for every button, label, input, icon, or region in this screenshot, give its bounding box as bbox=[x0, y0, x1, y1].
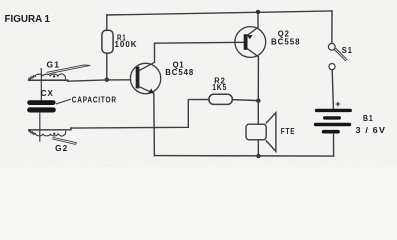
resistor R1 bbox=[102, 15, 113, 80]
label R1 100K bbox=[115, 34, 138, 49]
switch S1 bbox=[328, 43, 347, 69]
wire junction to speaker bbox=[257, 101, 259, 125]
wire R2 right to junction bbox=[232, 100, 258, 101]
svg-text:100K: 100K bbox=[115, 40, 138, 49]
svg-text:BC548: BC548 bbox=[165, 68, 194, 77]
label Q1 BC548 bbox=[165, 61, 194, 78]
capacitor CX bbox=[27, 69, 56, 141]
wire Q1 emitter down to bottom rail bbox=[153, 93, 156, 156]
battery B1 bbox=[314, 109, 352, 134]
svg-text:S1: S1 bbox=[342, 46, 353, 55]
wire top rail corner down to S1 bbox=[331, 11, 333, 43]
speaker FTE bbox=[246, 113, 276, 152]
node top rail junction bbox=[256, 10, 260, 14]
label R2 1K5 bbox=[212, 77, 227, 92]
wire G1 to Q1 base bbox=[68, 80, 131, 81]
svg-text:BC558: BC558 bbox=[271, 38, 301, 47]
svg-text:FIGURA 1: FIGURA 1 bbox=[5, 14, 51, 25]
svg-text:G1: G1 bbox=[47, 61, 61, 70]
clip G1 bbox=[29, 65, 91, 81]
label CAPACITOR with leader bbox=[57, 96, 117, 105]
svg-text:B1: B1 bbox=[363, 114, 374, 123]
wire S1 to battery plus bbox=[332, 70, 333, 109]
svg-text:CAPACITOR: CAPACITOR bbox=[72, 96, 117, 105]
wire Q2 collector down to junction bbox=[257, 57, 259, 101]
wire speaker to bottom rail bbox=[257, 140, 259, 156]
svg-text:3 / 6V: 3 / 6V bbox=[356, 126, 387, 135]
svg-text:1K5: 1K5 bbox=[212, 83, 227, 92]
wire Q2 emitter up to top rail bbox=[257, 12, 259, 27]
svg-text:G2: G2 bbox=[55, 144, 68, 153]
transistor Q1 bbox=[130, 62, 160, 93]
wire bottom rail bbox=[154, 155, 333, 158]
transistor Q2 bbox=[235, 27, 266, 58]
svg-text:FTE: FTE bbox=[281, 127, 296, 136]
wire Q1 collector to Q2 base bbox=[155, 42, 244, 62]
clip G2 bbox=[29, 128, 77, 144]
wire top rail bbox=[107, 11, 332, 15]
node bottom rail junction bbox=[256, 154, 260, 158]
label Q2 BC558 bbox=[271, 29, 301, 46]
wire battery minus to bottom rail bbox=[333, 134, 335, 157]
svg-text:+: + bbox=[335, 99, 340, 109]
wire G2 to R2 left bbox=[71, 100, 209, 129]
node R2 / Q2 collector / speaker junction bbox=[256, 99, 260, 103]
resistor R2 bbox=[209, 94, 232, 104]
svg-text:CX: CX bbox=[41, 89, 54, 98]
node base junction bbox=[105, 78, 109, 82]
